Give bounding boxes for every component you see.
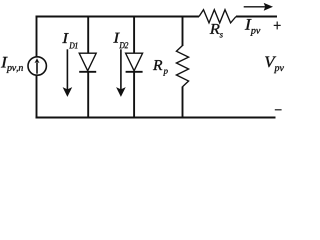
wire branch D2 lower bbox=[133, 72, 135, 119]
label I D1 bbox=[62, 33, 77, 48]
label I pv,n bbox=[1, 57, 23, 73]
label R p bbox=[153, 60, 168, 75]
wire branch D1 upper bbox=[87, 16, 89, 53]
label V pv bbox=[265, 57, 284, 74]
wire left rail lower segment bbox=[36, 76, 38, 119]
current arrow Ipv bbox=[244, 3, 273, 11]
plus terminal bbox=[274, 22, 281, 30]
wire left rail upper segment bbox=[36, 16, 38, 57]
diode D2 bbox=[126, 53, 143, 72]
label I D2 bbox=[113, 33, 128, 48]
label I pv bbox=[245, 19, 261, 36]
wire bottom rail bbox=[36, 117, 276, 119]
diode D1 bbox=[79, 53, 96, 72]
wire branch D2 upper bbox=[133, 16, 135, 53]
minus terminal bbox=[275, 109, 282, 111]
current source Ipv,n bbox=[28, 57, 46, 75]
wire top rail left section bbox=[36, 16, 200, 18]
current arrow ID1 bbox=[63, 49, 73, 97]
wire branch Rp upper bbox=[182, 16, 184, 46]
wire top rail right section bbox=[236, 16, 277, 18]
label R s bbox=[210, 24, 223, 38]
wire branch D1 lower bbox=[87, 72, 89, 119]
resistor Rp bbox=[176, 46, 188, 87]
resistor Rs bbox=[199, 10, 236, 23]
current arrow ID2 bbox=[116, 49, 126, 97]
wire branch Rp lower bbox=[182, 87, 184, 119]
